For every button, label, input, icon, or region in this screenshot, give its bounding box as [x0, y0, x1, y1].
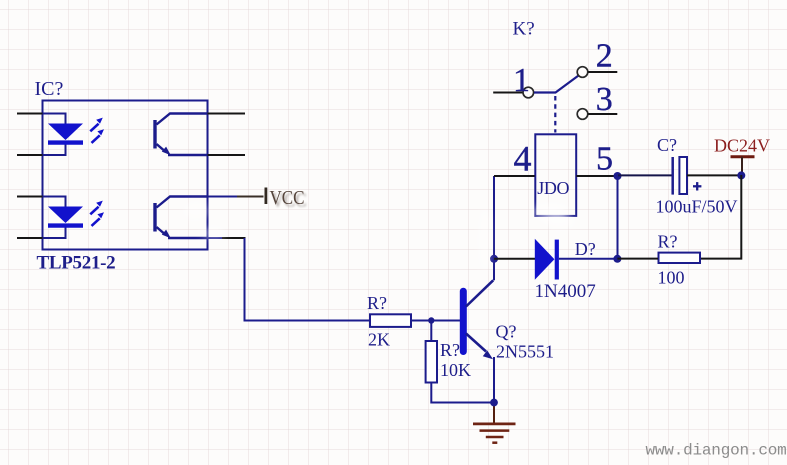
svg-text:C?: C? — [657, 135, 677, 155]
wire : emitter vertical — [493, 357, 495, 403]
svg-text:1: 1 — [513, 62, 530, 99]
wire : 10K bottom to emitter node — [431, 383, 494, 403]
node : base junction — [428, 317, 434, 323]
switch terminal 2 — [577, 67, 588, 78]
svg-text:JDO: JDO — [537, 178, 569, 198]
svg-text:2K: 2K — [368, 330, 390, 350]
svg-text:Q?: Q? — [496, 322, 517, 342]
resistor R? 100 — [659, 253, 701, 263]
svg-text:100uF/50V: 100uF/50V — [656, 197, 738, 217]
node : diode cathode junction — [613, 255, 621, 263]
resistor R? 10K — [430, 321, 432, 342]
wire : relay pin 4 lead — [494, 175, 535, 177]
switch terminal 3 — [577, 109, 588, 120]
wire : R1 to base — [411, 320, 461, 322]
resistor R? 2K — [370, 314, 411, 327]
wire : capacitor to DC24V rail — [687, 174, 741, 176]
svg-text:3: 3 — [596, 81, 613, 118]
LED of optocoupler channel 1 (pins 1-2) — [43, 114, 66, 156]
svg-text:K?: K? — [513, 19, 535, 40]
wire : terminal 2 lead — [588, 71, 617, 73]
wire : terminal 3 lead — [588, 113, 617, 115]
svg-text:TLP521-2: TLP521-2 — [37, 253, 116, 274]
svg-text:100: 100 — [658, 268, 685, 288]
svg-text:2N5551: 2N5551 — [496, 342, 554, 362]
relay coil JDO (pins 4-5) — [535, 134, 576, 216]
svg-text:IC?: IC? — [35, 78, 64, 100]
wire : vertical between pin5 node and diode cathode — [617, 176, 619, 259]
phototransistor of optocoupler channel 2 — [155, 197, 208, 239]
capacitor C? 100uF/50V electrolytic — [671, 157, 674, 195]
switch terminal 1 — [523, 87, 534, 98]
svg-text:4: 4 — [514, 139, 532, 179]
svg-text:R?: R? — [367, 293, 387, 313]
wire : relay pin 5 lead — [576, 175, 614, 177]
wire : ch2 emitter to base resistor — [208, 237, 223, 239]
svg-text:VCC: VCC — [270, 188, 305, 209]
wire : right stub ch1 collector — [208, 113, 246, 115]
svg-text:DC24V: DC24V — [714, 136, 770, 156]
svg-text:D?: D? — [575, 239, 596, 259]
diode D? 1N4007 — [494, 258, 535, 260]
wire : (watermark erase ghost overlays, decorative) — [184, 203, 574, 272]
wire : dashed actuator link — [554, 96, 556, 133]
svg-text:1N4007: 1N4007 — [535, 281, 596, 302]
ground — [473, 424, 516, 443]
wire : switch common lead — [493, 92, 522, 94]
wire : left stub pin2 (ch1 cathode) — [17, 154, 43, 156]
node : emitter / 10K junction — [490, 399, 498, 407]
wire : collector vertical — [493, 176, 495, 280]
svg-text:2: 2 — [596, 38, 613, 75]
transistor Q? 2N5551 — [460, 291, 467, 351]
node : DC24V junction — [737, 171, 745, 179]
wire : left stub pin3 (ch2 anode) — [17, 196, 43, 198]
wire : pin5 node to capacitor — [618, 174, 672, 176]
svg-text:www.diangon.com: www.diangon.com — [646, 442, 787, 460]
svg-text:10K: 10K — [440, 360, 471, 380]
wire : left stub pin4 (ch2 cathode) — [17, 237, 43, 239]
power port VCC — [264, 188, 267, 205]
wire : left stub pin1 (ch1 anode) — [17, 113, 43, 115]
svg-text:5: 5 — [596, 141, 613, 178]
svg-text:R?: R? — [658, 232, 678, 252]
svg-text:R?: R? — [440, 340, 460, 360]
switch arm — [534, 76, 578, 93]
wire : right rail down to R3 row — [700, 175, 742, 259]
wire : right stub ch2 collector to VCC — [208, 196, 238, 198]
LED ch1 emission arrows — [90, 118, 104, 143]
wire : right stub ch1 emitter — [208, 154, 246, 156]
phototransistor of optocoupler channel 1 — [155, 114, 208, 156]
node : collector/diode junction — [490, 255, 498, 263]
node : pin5 junction — [614, 172, 622, 180]
LED ch2 emission arrows — [90, 201, 104, 226]
LED of optocoupler channel 2 (pins 3-4) — [43, 197, 66, 239]
optocoupler U1 (IC?) TLP521-2 body box — [43, 101, 208, 250]
